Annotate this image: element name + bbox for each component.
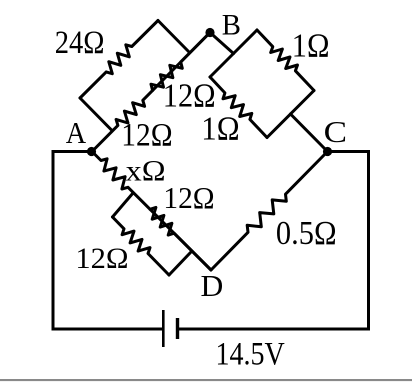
svg-text:xΩ: xΩ bbox=[126, 155, 166, 188]
battery 14.5V long plate bbox=[162, 310, 165, 347]
resistor 1ohm top bbox=[257, 30, 314, 91]
resistor 12ohm upper on A-B diagonal bbox=[151, 33, 210, 91]
battery short plate bbox=[176, 318, 179, 339]
resistor 12ohm on A-D diagonal bbox=[150, 207, 211, 270]
wire junction Ja to corner V1 bbox=[80, 98, 112, 130]
wire V to top peak bbox=[234, 30, 258, 54]
node A bbox=[87, 147, 96, 156]
svg-text:12Ω: 12Ω bbox=[163, 181, 214, 215]
wire junction J2 to C bbox=[291, 114, 328, 152]
resistor x-ohm bbox=[92, 152, 211, 271]
svg-text:12Ω: 12Ω bbox=[75, 243, 128, 275]
grey separator rule at bottom bbox=[0, 379, 412, 381]
resistor 12ohm lower on A-B diagonal bbox=[92, 33, 210, 152]
wire V4 to junction M bbox=[169, 253, 191, 276]
svg-text:24Ω: 24Ω bbox=[55, 25, 105, 61]
svg-text:12Ω: 12Ω bbox=[121, 118, 172, 154]
svg-text:12Ω: 12Ω bbox=[163, 78, 216, 115]
wire junction Jc to corner V3 bbox=[113, 193, 134, 217]
resistor 1ohm inner bbox=[210, 77, 267, 138]
wire bottom vertex to right vertex bbox=[267, 91, 314, 138]
wire: battery to bottom right rail up to C bbox=[179, 152, 369, 330]
resistor 24ohm bbox=[80, 21, 158, 99]
svg-text:1Ω: 1Ω bbox=[201, 111, 239, 148]
svg-text:A: A bbox=[66, 116, 87, 150]
resistor 0.5ohm bbox=[211, 152, 328, 271]
wire B to junction V bbox=[210, 33, 234, 54]
svg-text:C: C bbox=[324, 115, 347, 149]
svg-text:B: B bbox=[222, 9, 241, 42]
resistor 12ohm lower-left branch bbox=[113, 217, 170, 275]
wire V to corner W bbox=[210, 54, 234, 78]
wire: A to left rail, down, bottom to battery bbox=[53, 152, 162, 330]
svg-text:D: D bbox=[201, 269, 224, 303]
svg-text:0.5Ω: 0.5Ω bbox=[276, 215, 337, 252]
node C bbox=[323, 147, 332, 156]
wire peak to junction Jb bbox=[158, 21, 190, 53]
svg-text:1Ω: 1Ω bbox=[292, 28, 330, 65]
svg-text:14.5V: 14.5V bbox=[216, 337, 285, 373]
node B bbox=[205, 28, 214, 37]
